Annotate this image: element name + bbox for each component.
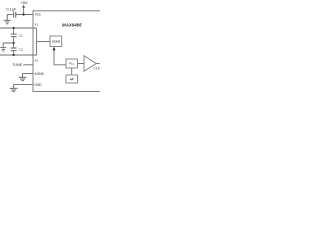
svg-text:0.1µF: 0.1µF: [6, 7, 17, 12]
wire X1: [0, 27, 37, 29]
wire TUNE: [23, 64, 33, 66]
wire PLL to divider: [71, 68, 73, 75]
svg-text:CLKOUT: CLKOUT: [93, 67, 100, 71]
svg-text:X1: X1: [34, 22, 38, 26]
ground GND: [10, 85, 18, 92]
svg-text:VCXO: VCXO: [52, 39, 61, 43]
svg-text:TUNE: TUNE: [12, 63, 22, 67]
IC box MAX9485 outline: [33, 11, 103, 92]
ground AGND: [19, 74, 27, 81]
divider block ÷P: [66, 75, 78, 83]
svg-text:C1: C1: [19, 33, 23, 37]
wire cap left lead: [7, 14, 13, 16]
wire PLL to buffer: [78, 63, 85, 65]
svg-text:PLL: PLL: [69, 62, 75, 66]
svg-text:VDD: VDD: [35, 13, 41, 17]
arrow into VCXO (tune control): [53, 47, 56, 51]
wire GND: [14, 84, 33, 86]
node X2 junction: [13, 54, 15, 56]
VCXO block U-internal: [50, 36, 62, 47]
svg-text:AGND: AGND: [34, 72, 44, 76]
wire cap midpoint to ground: [3, 43, 13, 47]
wire CLKOUT: [96, 63, 100, 65]
wire X1-X2 inner vertical: [36, 28, 38, 55]
VDD wire: [16, 14, 33, 16]
capacitor C1: [11, 34, 17, 37]
ground for 0.1uF cap: [4, 15, 11, 24]
wire VCXO control vertical: [54, 50, 66, 65]
wire X2: [0, 54, 37, 56]
capacitor 0.1uF: [14, 12, 16, 18]
svg-text:X2: X2: [34, 59, 38, 63]
wire crystal-cap branch vertical: [13, 28, 15, 55]
node +5V junction: [23, 13, 25, 15]
ground for load caps: [0, 48, 6, 51]
svg-text:+5V: +5V: [20, 0, 28, 5]
PLL block: [66, 59, 78, 68]
wire to VCXO: [37, 41, 50, 43]
capacitor C2: [11, 48, 17, 51]
wire AGND: [23, 73, 33, 75]
node X1 junction: [13, 27, 15, 29]
+5V wire: [23, 7, 25, 14]
+5V arrow: [22, 5, 25, 8]
svg-text:GND: GND: [34, 83, 42, 87]
svg-text:C2: C2: [19, 47, 23, 51]
node cap midpoint junction: [13, 42, 15, 44]
op-amp output buffer: [84, 56, 96, 72]
svg-text:MAX9485: MAX9485: [62, 23, 82, 28]
